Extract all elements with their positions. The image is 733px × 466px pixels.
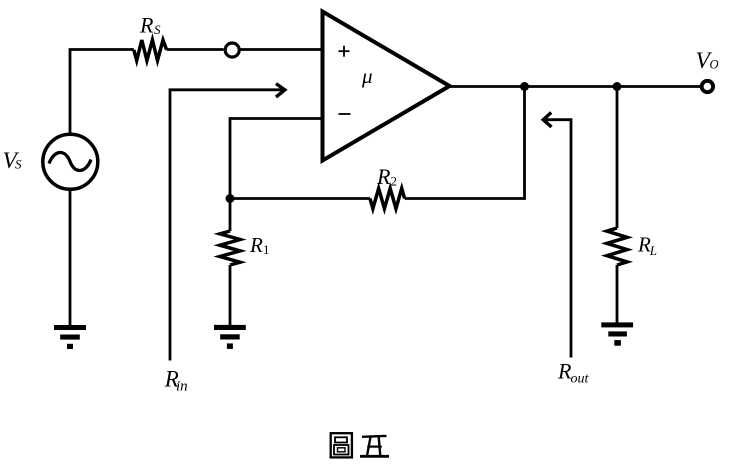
svg-text:2: 2 [391, 174, 398, 189]
svg-text:μ: μ [361, 64, 373, 88]
svg-text:O: O [710, 58, 719, 72]
svg-text:S: S [15, 157, 22, 172]
svg-text:S: S [154, 22, 161, 37]
svg-text:L: L [649, 243, 657, 258]
svg-text:in: in [176, 379, 188, 395]
svg-text:R: R [139, 13, 154, 38]
svg-text:R: R [249, 233, 263, 257]
svg-text:1: 1 [263, 242, 270, 257]
svg-text:out: out [571, 371, 590, 386]
svg-text:R: R [376, 164, 391, 189]
